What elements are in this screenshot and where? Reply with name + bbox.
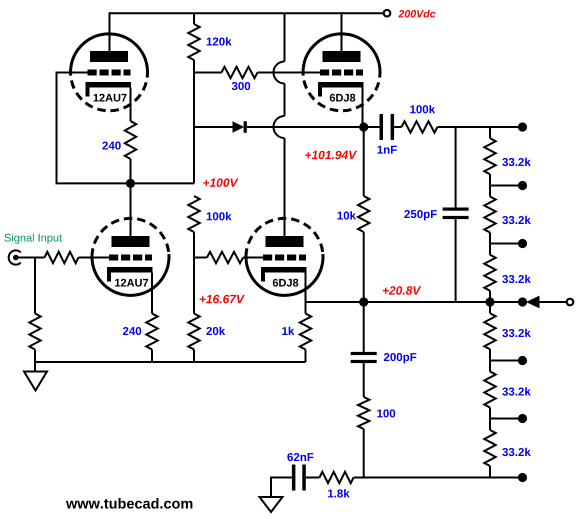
terminal 200Vdc — [384, 10, 391, 17]
capacitor 200pF — [363, 302, 365, 352]
label 200Vdc — [398, 10, 435, 18]
wire 300 to U2a grid — [258, 72, 321, 74]
label www.tubecad.com — [66, 498, 192, 509]
wire cathode U1a — [130, 88, 132, 122]
wire bus to diode node — [193, 127, 195, 183]
label 100 — [377, 409, 395, 417]
capacitor 250pF — [455, 127, 457, 208]
resistor 1.8k — [320, 472, 354, 483]
wire output rail — [364, 301, 526, 303]
capacitor 1nF — [364, 126, 380, 128]
label +100V — [203, 178, 238, 187]
node D junction dot — [485, 297, 494, 306]
wire diode to node B — [247, 126, 364, 128]
label 300 — [232, 82, 250, 90]
wire 240 lower to rail — [151, 350, 153, 363]
resistor input shunt — [29, 314, 40, 350]
wire ground G2 to 62nF — [271, 478, 292, 498]
label 1k — [282, 327, 294, 335]
dot ladder tap 3 — [518, 356, 527, 365]
resistor 33.2k #3 — [484, 255, 496, 291]
resistor 300 — [222, 67, 258, 78]
resistor 20k — [188, 314, 199, 350]
label 100k horizontal — [410, 105, 435, 113]
wire cathode U2b to node C — [306, 301, 364, 303]
wire ladder tap 4 — [490, 418, 523, 420]
capacitor 62nF — [292, 465, 296, 491]
dot ladder tap 2 — [518, 239, 527, 248]
resistor 100k horizontal — [402, 121, 438, 132]
node B junction dot — [359, 122, 368, 131]
node C junction dot — [359, 297, 368, 306]
ground G2 — [260, 497, 283, 512]
label +16.67V — [200, 295, 245, 304]
label 33.2k #1 — [502, 158, 531, 166]
wire 100k to ladder top — [438, 126, 523, 128]
resistor 33.2k #2 — [484, 197, 496, 233]
wire input shunt drop — [34, 258, 36, 314]
wire bottom line — [354, 477, 523, 479]
resistor 33.2k #1 — [484, 138, 496, 174]
label 10k — [338, 211, 357, 219]
wire grid stopper left — [194, 257, 207, 259]
triode U1a 12AU7 — [71, 34, 148, 111]
wire cathode U2a — [362, 88, 364, 128]
label Signal Input — [5, 234, 63, 244]
wire plate U1a — [109, 12, 111, 51]
label 1nF — [378, 146, 397, 154]
wire grid U1a feedback — [57, 73, 195, 184]
wire 62nF to 1.8k — [306, 477, 320, 479]
label 200pF — [384, 353, 416, 363]
wire ladder tap 3 — [490, 360, 523, 362]
resistor 240 lower — [146, 314, 157, 350]
diode D1 — [233, 121, 245, 133]
power rail 200V (top wire) — [110, 12, 384, 14]
label 20k — [206, 327, 225, 335]
wire 300 line left — [194, 72, 222, 74]
wire input — [16, 257, 45, 259]
wire B+ bus top — [193, 13, 195, 24]
wire ladder vertical — [489, 127, 491, 478]
label 33.2k #4 — [502, 329, 531, 337]
wire ladder tap 2 — [490, 243, 523, 245]
wire bus 120k to 300 node — [193, 60, 195, 127]
ground G1 — [24, 372, 47, 391]
triode U2a 6DJ8 — [303, 34, 380, 111]
input jack — [9, 250, 21, 264]
dot ladder tap 4 — [518, 414, 527, 423]
wire cathode U1b — [151, 273, 153, 314]
resistor grid stopper — [207, 252, 243, 263]
label 240 lower — [123, 327, 141, 335]
resistor 120k — [188, 24, 199, 60]
node A junction dot — [126, 179, 135, 188]
dot ladder top — [518, 122, 527, 131]
resistor 10k — [363, 127, 365, 196]
resistor 240 upper — [125, 121, 136, 159]
wire shunt to ground — [34, 350, 36, 372]
wire 100 to bottom line — [363, 429, 365, 478]
dot ladder bottom — [518, 473, 527, 482]
wire 10k to node C — [363, 232, 365, 302]
resistor input series — [45, 252, 79, 263]
wire diode line left — [194, 126, 233, 128]
wire ladder top tap — [490, 126, 523, 128]
dot output tap — [518, 297, 527, 306]
wire 20k to rail — [193, 350, 195, 363]
wire plate U2a — [341, 12, 343, 51]
label 250pF — [404, 210, 436, 220]
wire to grid U1b — [79, 257, 110, 259]
wire stopper to grid U2b — [243, 257, 263, 259]
terminal output — [567, 299, 574, 306]
ground rail — [35, 361, 306, 363]
resistor 100k vertical — [188, 196, 199, 232]
label 33.2k #6 — [502, 448, 531, 456]
wire plate U1b — [130, 183, 132, 236]
resistor 33.2k #6 — [484, 430, 496, 466]
wire arrow to terminal — [540, 301, 567, 303]
wire 1k to rail — [305, 350, 307, 363]
triode U1b 12AU7 — [92, 218, 169, 295]
wire cathode U2b — [305, 273, 307, 314]
wire plate U2b drop with hops — [284, 13, 286, 61]
wire bus 100k to grid line — [193, 232, 195, 314]
resistor 33.2k #5 — [484, 372, 496, 408]
resistor 33.2k #4 — [484, 313, 496, 349]
label 62nF — [287, 453, 313, 461]
label 33.2k #2 — [502, 216, 531, 224]
output arrow — [526, 296, 540, 309]
label 1.8k — [328, 489, 350, 497]
label 100k vertical — [207, 212, 232, 220]
label +20.8V — [383, 286, 422, 295]
dot ladder tap 1 — [518, 181, 527, 190]
resistor 1k — [300, 314, 311, 350]
triode U2b 6DJ8 — [246, 218, 323, 295]
wire ladder tap 1 — [490, 185, 523, 187]
label 33.2k #3 — [502, 275, 531, 283]
wire 240 to node A — [130, 159, 132, 183]
label +101.94V — [305, 151, 357, 160]
label 33.2k #5 — [502, 387, 531, 395]
label 240 upper — [102, 142, 120, 150]
label 120k — [207, 37, 232, 45]
resistor 100 — [358, 397, 369, 429]
